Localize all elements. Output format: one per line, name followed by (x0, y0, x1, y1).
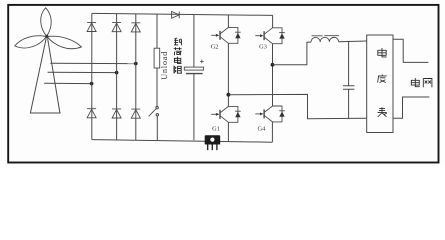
diode D4 bottom leg1 (87, 109, 96, 118)
label 表 meter (378, 107, 387, 117)
wire right leg mid (272, 44, 274, 106)
capacitor C2 filter (348, 42, 350, 86)
wire grid bottom step (393, 97, 430, 118)
wire G3 collector (272, 15, 274, 27)
wire AC lower output (228, 94, 366, 118)
rectifier leg 2 (116, 14, 118, 140)
label 度 meter (378, 74, 387, 82)
svg-text:G4: G4 (258, 126, 267, 133)
diode D5 bottom leg2 (112, 109, 121, 118)
diode D3 top leg3 (131, 23, 140, 32)
label 电 grid (411, 78, 420, 87)
wind turbine blade right (47, 36, 81, 48)
IGBT G2 (211, 27, 241, 43)
wire left leg mid (227, 43, 229, 106)
wire AC upper output (273, 42, 312, 65)
DC+ top bus (92, 13, 273, 15)
inductor L1 (311, 37, 339, 42)
svg-text:G2: G2 (211, 43, 219, 50)
meter box (367, 35, 393, 133)
resistor unload (154, 48, 160, 68)
IGBT G4 (255, 106, 284, 122)
node A (134, 62, 138, 66)
capacitor C1 electrolytic (193, 15, 195, 67)
turbine tower (30, 38, 61, 113)
node B (115, 71, 119, 75)
switch K (149, 107, 159, 117)
IGBT G3 (255, 28, 284, 44)
wire L1 to meter (339, 40, 367, 43)
wind turbine blade left (15, 36, 47, 48)
wire G4 emitter (271, 122, 273, 142)
wire G1 emitter (227, 122, 229, 141)
node right leg (271, 63, 275, 67)
label 电 unload (174, 57, 181, 64)
unload branch wire mid (156, 68, 158, 107)
phase wire B (48, 71, 117, 73)
label 电 meter (378, 48, 387, 57)
diode D1 top leg1 (87, 22, 96, 31)
diode D6 bottom leg3 (131, 109, 140, 118)
diode D7 series top bus (172, 12, 180, 19)
rectifier leg 1 (91, 13, 93, 139)
rectifier leg 3 (135, 14, 137, 140)
svg-text:Unload: Unload (160, 51, 169, 80)
current sensor package (205, 135, 221, 150)
unload branch wire bottom (156, 116, 158, 140)
node C (90, 82, 94, 86)
svg-text:G1: G1 (212, 126, 220, 133)
DC- bottom bus (92, 140, 272, 143)
label 阻 unload (174, 66, 182, 74)
phase wire A (50, 62, 136, 64)
label 网 grid (423, 79, 432, 88)
wire G2 collector (227, 15, 229, 28)
wind turbine blade top (41, 8, 52, 36)
label 荷 unload (174, 47, 182, 55)
turbine hub (45, 35, 48, 38)
unload branch wire top (156, 14, 158, 48)
svg-text:G3: G3 (259, 44, 267, 51)
IGBT G1 (211, 106, 241, 122)
wire grid top step (393, 39, 428, 62)
label 卸 unload (174, 38, 181, 45)
phase wire C (44, 82, 91, 84)
node left leg (227, 93, 231, 97)
diode D2 top leg2 (112, 23, 121, 32)
inductor core dashes (312, 35, 340, 37)
border frame (8, 5, 438, 163)
